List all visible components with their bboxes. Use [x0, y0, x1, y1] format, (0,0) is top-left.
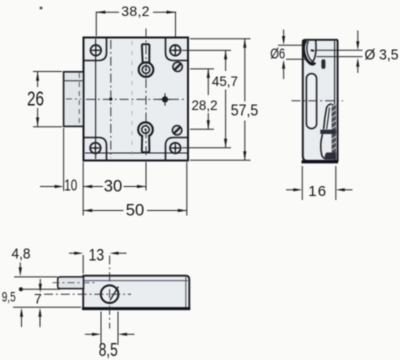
latch dashed guide line: [78, 73, 80, 126]
dim 50 line: [83, 210, 123, 212]
latch tab centerline: [53, 282, 98, 284]
bottom view inner top line: [84, 280, 188, 282]
side view long slot: [306, 74, 316, 129]
dim 13 line: [69, 252, 75, 254]
dim 26 line: [37, 72, 39, 87]
latch bolt body: [64, 72, 84, 127]
bottom view inner right line: [185, 277, 187, 307]
svg-text:7: 7: [34, 291, 42, 307]
corner plate top-right: [166, 39, 188, 61]
latch head line: [64, 80, 82, 82]
dim 8,5 extension right: [117, 312, 119, 346]
bottom view latch tab: [58, 277, 84, 289]
dim 16 line: [286, 189, 294, 191]
dim phi3,5 extension top: [317, 49, 363, 51]
bottom view hole horizontal centerline: [44, 293, 131, 295]
extension line screw row bottom: [182, 147, 231, 149]
dim phi6 stem bottom: [282, 60, 285, 69]
bottom view body: [83, 276, 189, 309]
side view horizontal centerline: [292, 100, 344, 102]
dim phi6 extension bottom: [286, 58, 306, 60]
slotted screw lower right: [172, 126, 181, 135]
front vertical centerline through pins: [145, 29, 147, 158]
dim phi3,5 stem top: [357, 31, 359, 43]
dim 30 line: [83, 186, 103, 188]
case center mark: [162, 96, 168, 102]
dim 7 arrow bottom: [38, 308, 41, 317]
extension case left edge down: [82, 162, 84, 216]
svg-text:57,5: 57,5: [231, 103, 259, 120]
dim 38,2 extension line left: [95, 12, 97, 37]
side view body: [303, 40, 338, 161]
front vertical centerline left: [110, 40, 112, 158]
dim 16 extension right: [335, 166, 337, 200]
svg-text:45,7: 45,7: [212, 73, 238, 89]
corner screw top-right: [170, 45, 181, 56]
corner screw top-left: [91, 45, 102, 56]
dim phi3,5 stem bottom: [356, 58, 359, 67]
corner screw bottom-left: [90, 143, 101, 154]
dim 9,5 arrow bottom: [20, 308, 23, 317]
dim 26 extension top: [33, 71, 62, 73]
bottom key pin wing: [142, 136, 150, 153]
tab top extension line: [14, 276, 58, 278]
front view bottom rim line: [85, 152, 187, 154]
svg-text:30: 30: [104, 177, 123, 196]
dim 13 extension left: [82, 255, 84, 274]
corner plate bottom-right: [166, 138, 188, 160]
extension line screw row top: [182, 49, 231, 51]
side view inner right wall line: [334, 41, 336, 160]
svg-text:Ø6: Ø6: [270, 46, 285, 63]
dim phi3,5 extension bottom: [317, 56, 363, 58]
lock case front view body: [84, 38, 189, 161]
svg-text:26: 26: [27, 88, 44, 110]
svg-text:16: 16: [308, 183, 327, 200]
dim phi6 extension top: [278, 44, 304, 46]
corner plate bottom-left: [85, 138, 107, 160]
bottom edge extension line left: [13, 306, 81, 308]
extension line case top right: [190, 38, 251, 40]
dim 10 line: [40, 186, 56, 188]
dim 9,5 reference dot and leader: [19, 287, 23, 291]
dim 38,2 extension line right: [175, 12, 177, 37]
side view lever curves: [324, 104, 332, 129]
svg-text:4,8: 4,8: [12, 246, 31, 262]
side view small slot: [321, 59, 325, 69]
svg-text:9,5: 9,5: [2, 290, 16, 305]
dim phi6 stem top: [283, 30, 285, 38]
extension line pin row top: [190, 68, 214, 70]
extension latch left edge down: [63, 128, 65, 191]
front horizontal centerline: [86, 98, 186, 100]
side view top rolled hook: [304, 41, 315, 65]
dim 28,2 line: [207, 69, 209, 95]
corner screw bottom-right: [170, 143, 181, 154]
side view mechanism hatched strip: [332, 104, 336, 158]
side view lever bar: [320, 130, 336, 134]
extension case right edge down: [186, 162, 188, 216]
extension pin center down: [145, 162, 147, 191]
centerline junction dot: [109, 98, 112, 101]
dim 8,5 line: [85, 333, 93, 335]
side view mechanism foot: [325, 153, 337, 160]
dim 38,2 line: [96, 11, 119, 13]
bottom view heavy bottom edge: [82, 307, 190, 310]
dim 7 arrow top: [39, 279, 41, 286]
svg-text:38,2: 38,2: [121, 3, 149, 19]
latch centerline: [66, 98, 81, 100]
svg-text:50: 50: [126, 201, 145, 220]
side view bottom heavy edge: [302, 160, 339, 163]
front view inner left guide line: [95, 39, 97, 159]
dim 4,8 arrow: [19, 263, 21, 269]
scan speck: [40, 7, 43, 10]
dim 8,5 extension left: [100, 312, 102, 346]
extension line case bottom right: [190, 159, 251, 161]
front faint vertical centerline: [131, 41, 133, 157]
svg-text:13: 13: [89, 247, 105, 265]
top key pin hub: [139, 62, 154, 77]
corner plate top-left: [85, 39, 107, 61]
extension line pin row bottom: [190, 128, 214, 130]
bottom view hole vertical centerline: [109, 256, 111, 329]
svg-text:10: 10: [64, 178, 77, 195]
bottom key pin hub: [138, 122, 153, 137]
dim 26 extension bottom: [33, 126, 62, 128]
bottom view key hole: [101, 285, 119, 303]
svg-text:8,5: 8,5: [99, 340, 118, 360]
slotted screw upper right: [173, 62, 182, 71]
dim 16 extension left: [301, 166, 303, 200]
dim 57,5 line: [244, 39, 246, 102]
svg-text:Ø 3,5: Ø 3,5: [365, 47, 399, 64]
top key pin wing: [142, 44, 150, 63]
svg-text:28,2: 28,2: [192, 98, 218, 113]
dim 45,7 line: [225, 50, 227, 71]
